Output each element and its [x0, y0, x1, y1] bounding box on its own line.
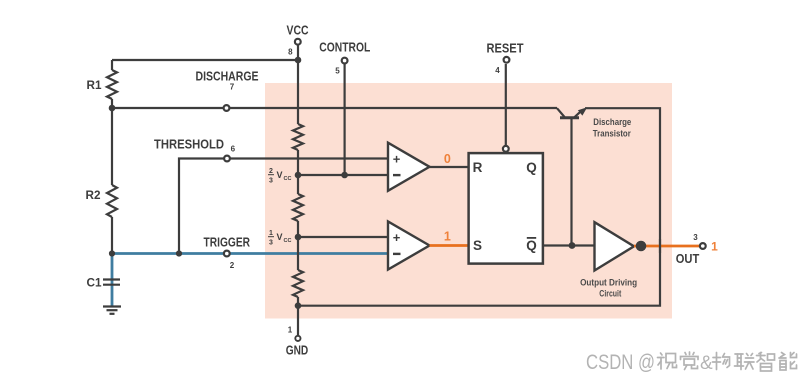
node: 1/3 Vcc junction on divider	[295, 234, 302, 241]
svg-text:V: V	[277, 170, 283, 180]
wire: U1 output to latch R input	[430, 166, 470, 168]
node: threshold branch junction on trigger wire	[176, 250, 182, 256]
wire: latch Qbar output to buffer U4	[543, 244, 595, 246]
svg-text:RESET: RESET	[487, 42, 524, 56]
wire: OUT (pin 3, orange)	[634, 245, 699, 248]
SR latch U3	[469, 153, 543, 264]
resistor R2	[107, 108, 117, 254]
svg-text:S: S	[473, 238, 482, 253]
terminal: GND pin open circle	[295, 336, 300, 341]
svg-text:Q: Q	[526, 160, 537, 175]
capacitor C1	[103, 280, 120, 285]
svg-text:V: V	[277, 232, 283, 242]
wire: chain upper-middle	[297, 150, 299, 194]
node: control junction on 2/3 Vcc net	[341, 172, 348, 179]
svg-text:7: 7	[230, 83, 235, 92]
svg-text:Discharge: Discharge	[593, 117, 631, 128]
terminal: DISCHARGE pin open circle	[224, 105, 230, 111]
svg-text:6: 6	[231, 145, 236, 154]
svg-text:3: 3	[269, 239, 273, 246]
svg-text:5: 5	[335, 67, 340, 76]
watermark glyph shi (vision)	[658, 353, 677, 369]
svg-text:0: 0	[444, 152, 451, 166]
terminal: TRIGGER pin open circle	[224, 251, 230, 257]
svg-text:CSDN @: CSDN @	[586, 351, 655, 374]
svg-text:Circuit: Circuit	[599, 289, 622, 300]
wire: top rail from R1 top to VCC node	[112, 59, 298, 61]
comparator U2 (trigger comparator)	[388, 221, 430, 269]
node: Qbar / transistor base junction	[569, 242, 576, 249]
wire: VCC stub	[297, 45, 299, 60]
ground symbol (external)	[103, 307, 121, 314]
wire: chain bottom to GND rail node	[297, 297, 299, 306]
svg-text:1: 1	[269, 230, 273, 237]
node: 2/3 Vcc junction on divider	[295, 172, 302, 179]
svg-text:+: +	[393, 151, 401, 166]
wire: U2 output to latch S input (orange, state 1)	[430, 244, 470, 247]
svg-text:Transistor: Transistor	[593, 129, 631, 140]
node: discharge junction on left rail	[109, 105, 116, 112]
svg-text:1: 1	[444, 230, 451, 244]
terminal: CONTROL pin open circle	[342, 58, 348, 64]
svg-text:DISCHARGE: DISCHARGE	[196, 70, 259, 84]
svg-text:2: 2	[269, 168, 273, 175]
node: VCC junction	[295, 57, 302, 64]
label 2/3 Vcc	[268, 168, 291, 184]
divider resistor (middle 5k)	[293, 194, 303, 221]
wire: THRESHOLD line (pin 6) L-shape to comparator U1 + input	[179, 159, 389, 254]
wire: transistor Q1 base stem	[570, 118, 572, 246]
node: R2 / C1 / trigger corner junction	[109, 250, 115, 256]
svg-text:&: &	[700, 353, 713, 374]
svg-text:3: 3	[693, 233, 698, 242]
comparator U1 (threshold comparator)	[388, 143, 430, 191]
svg-text:Q: Q	[526, 238, 537, 253]
wire: 2/3 Vcc net to comparator U1 - input	[298, 174, 389, 176]
svg-text:R2: R2	[86, 188, 101, 202]
svg-text:8: 8	[288, 48, 293, 57]
terminal: THRESHOLD pin open circle	[224, 156, 230, 162]
555 IC body (shaded region)	[265, 83, 672, 319]
node: output node (large dot)	[636, 241, 647, 252]
svg-text:C1: C1	[87, 276, 102, 290]
svg-text:3: 3	[269, 177, 273, 184]
wire: 1/3 Vcc net to comparator U2 + input	[298, 236, 389, 238]
watermark glyph lian (join)	[735, 354, 755, 370]
wire: emitter to right rail, down and along bottom to GND node	[298, 108, 660, 306]
svg-text:1: 1	[711, 240, 718, 254]
svg-text:CONTROL: CONTROL	[319, 41, 370, 55]
terminal: VCC pin open circle	[295, 39, 301, 45]
watermark glyph wu (thing)	[713, 353, 730, 370]
svg-text:OUT: OUT	[676, 252, 700, 266]
svg-text:CC: CC	[284, 176, 292, 182]
latch reset bubble	[503, 146, 509, 152]
node: GND rail junction under divider	[295, 302, 302, 309]
wire: GND stub (pin 1)	[297, 306, 299, 335]
wire: right rail segment over OUT wire crossing	[659, 239, 661, 253]
wire: chain middle-lower	[297, 221, 299, 270]
terminal: OUT pin open circle	[700, 243, 706, 249]
svg-text:VCC: VCC	[287, 24, 309, 38]
svg-text:2: 2	[230, 261, 235, 270]
voltage divider chain: wire VCC node to GND node	[297, 60, 299, 124]
svg-text:CC: CC	[284, 238, 292, 244]
wire: DISCHARGE line (pin 7) to transistor collector	[112, 107, 557, 109]
wire: CONTROL line (pin 5) down to 2/3 Vcc node	[344, 64, 346, 175]
svg-text:GND: GND	[286, 344, 309, 358]
wire: RESET line (pin 4) down to latch	[505, 64, 507, 146]
svg-text:TRIGGER: TRIGGER	[204, 236, 251, 250]
divider resistor (upper 5k)	[293, 124, 303, 150]
svg-text:Output Driving: Output Driving	[580, 277, 637, 288]
watermark glyph neng (able)	[779, 353, 797, 371]
svg-text:1: 1	[288, 326, 293, 335]
transistor Q1 (discharge transistor)	[557, 107, 587, 118]
buffer U4 (output driver)	[595, 222, 635, 270]
svg-text:+: +	[393, 230, 401, 245]
svg-text:4: 4	[495, 66, 500, 75]
svg-text:THRESHOLD: THRESHOLD	[154, 138, 224, 152]
terminal: RESET pin open circle	[504, 57, 510, 63]
svg-text:R1: R1	[87, 78, 102, 92]
watermark glyph zhi (wisdom)	[757, 353, 775, 372]
resistor R1	[107, 60, 117, 108]
label 1/3 Vcc	[268, 230, 291, 246]
wire: TRIGGER net (blue) horizontal + down to C1	[112, 254, 389, 307]
svg-text:R: R	[473, 160, 483, 175]
watermark glyph jue (sense)	[681, 352, 699, 370]
divider resistor (lower 5k)	[293, 270, 303, 297]
